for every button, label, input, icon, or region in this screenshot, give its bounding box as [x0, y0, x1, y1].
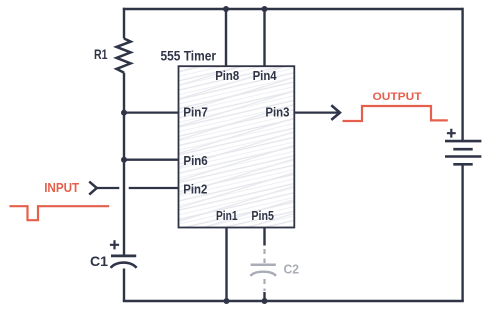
- node junction Pin8 top rail: [223, 6, 229, 12]
- battery long plate 2: [445, 155, 481, 158]
- capacitor C1 top plate: [111, 255, 136, 258]
- svg-text:C1: C1: [90, 254, 109, 269]
- svg-text:Pin7: Pin7: [183, 105, 208, 120]
- svg-text:Pin4: Pin4: [253, 68, 278, 83]
- svg-text:Pin3: Pin3: [265, 105, 289, 120]
- svg-text:Pin8: Pin8: [215, 68, 239, 83]
- wire input to crossover: [97, 187, 120, 189]
- wire top rail: [123, 8, 463, 10]
- capacitor C2 curved plate: [250, 272, 276, 276]
- node junction Pin1 bottom rail: [224, 298, 230, 304]
- op-amp U1 555 timer body: [179, 66, 295, 227]
- wire Pin8 to top rail: [225, 9, 227, 67]
- node junction at Pin7: [121, 110, 127, 116]
- battery B1 plus sign: [447, 129, 456, 138]
- svg-text:C2: C2: [284, 262, 300, 277]
- node junction Pin4 top rail: [262, 6, 268, 12]
- capacitor C1 plus sign: [110, 240, 119, 249]
- output arrow head: [331, 105, 340, 120]
- svg-text:OUTPUT: OUTPUT: [373, 91, 422, 103]
- capacitor C1 curved plate: [111, 263, 137, 268]
- svg-text:INPUT: INPUT: [44, 181, 79, 195]
- node junction at Pin6: [121, 157, 127, 163]
- resistor R1: [117, 39, 131, 73]
- svg-text:555 Timer: 555 Timer: [161, 47, 217, 63]
- wire Pin7: [124, 111, 179, 113]
- wire left rail upper segment: [123, 8, 125, 39]
- wire Pin3 output shaft: [294, 111, 338, 113]
- input terminal chevron: [89, 182, 97, 195]
- wire Pin1 to bottom rail: [225, 228, 227, 302]
- svg-text:Pin2: Pin2: [183, 182, 207, 197]
- wire right rail upper segment: [461, 8, 463, 141]
- wire Pin4 to top rail: [263, 9, 265, 67]
- wire Pin5 dashed lower: [263, 279, 265, 291]
- wire left rail mid segment (R1 to C1): [123, 73, 125, 256]
- svg-text:Pin6: Pin6: [183, 153, 207, 168]
- wire bottom rail: [123, 300, 464, 302]
- svg-text:R1: R1: [94, 46, 108, 62]
- capacitor C2 top plate: [251, 264, 276, 267]
- input waveform (negative pulse): [10, 206, 110, 220]
- battery long plate 1: [445, 140, 481, 143]
- wire left rail lower segment (C1 to bottom): [123, 269, 125, 302]
- wire crossover to Pin2: [129, 187, 179, 189]
- node junction Pin5 bottom rail: [262, 298, 268, 304]
- op-amp U1 555 timer body overlay texture: [179, 66, 295, 227]
- battery short plate 1: [453, 148, 472, 151]
- output waveform (positive pulse): [343, 106, 448, 121]
- wire Pin5 solid stub upper: [263, 228, 265, 246]
- wire Pin6: [124, 159, 179, 161]
- svg-text:Pin1: Pin1: [216, 208, 238, 223]
- wire Pin5 solid stub lower: [263, 292, 265, 301]
- wire Pin5 dashed upper: [263, 249, 265, 263]
- wire right rail lower segment: [461, 164, 463, 301]
- battery short plate 2: [453, 163, 472, 166]
- svg-text:Pin5: Pin5: [251, 208, 274, 223]
